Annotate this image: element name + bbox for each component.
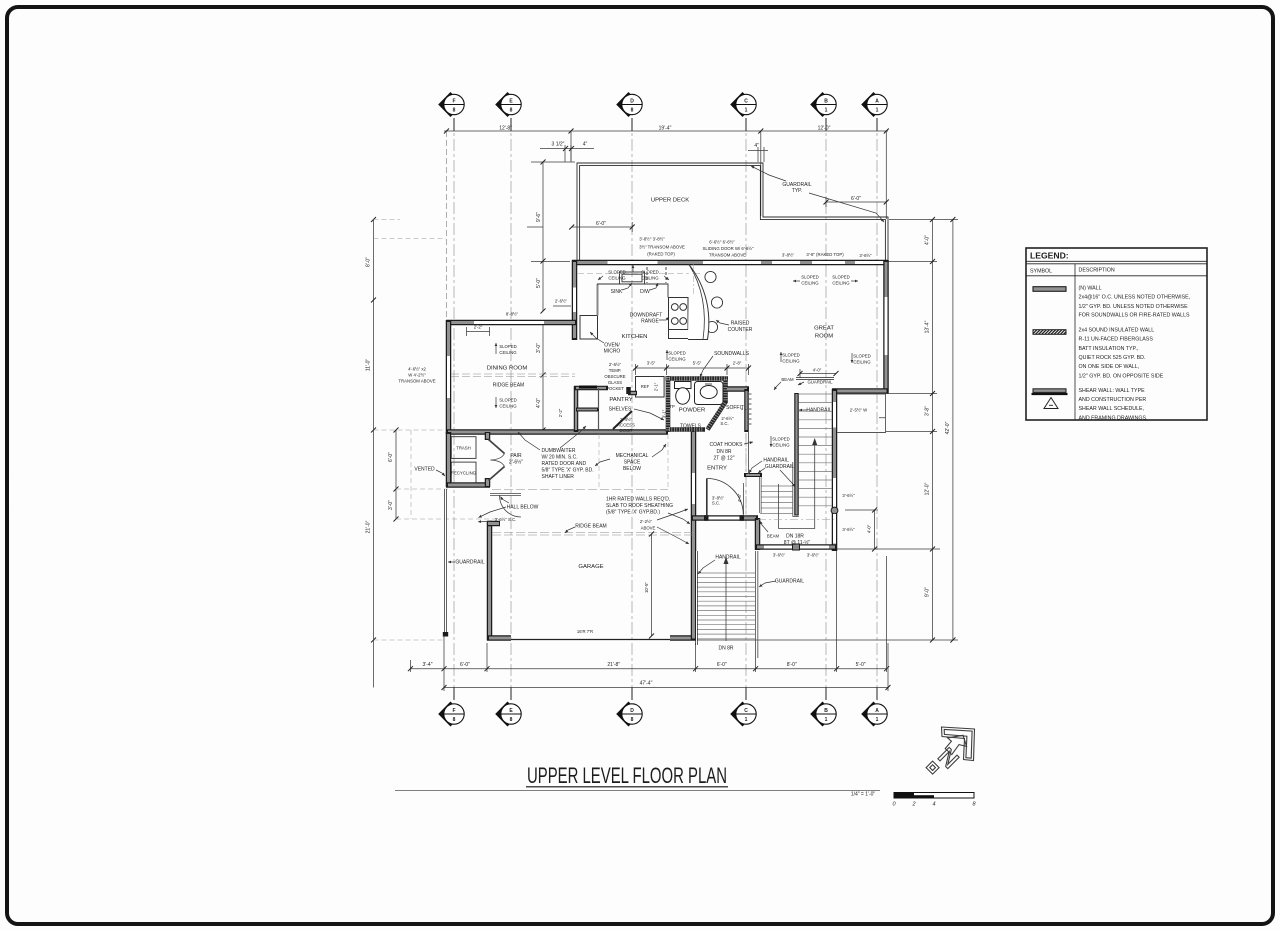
svg-text:3'-6½": 3'-6½" [842, 527, 855, 532]
svg-text:BEAM: BEAM [781, 377, 794, 382]
garage south wall + door opening [487, 638, 697, 640]
recycling bin box [451, 462, 476, 483]
svg-text:POCKET: POCKET [606, 386, 624, 391]
svg-text:MECHANICAL: MECHANICAL [616, 453, 649, 459]
kitchen counter [597, 267, 668, 298]
svg-text:6'-0": 6'-0" [388, 452, 394, 462]
svg-text:3'-0": 3'-0" [388, 500, 394, 510]
svg-text:5'-0": 5'-0" [536, 278, 542, 288]
grid bubble F/8 bottom [438, 702, 464, 727]
svg-text:DESCRIPTION: DESCRIPTION [1079, 268, 1115, 274]
svg-text:4'-6": 4'-6" [737, 493, 742, 502]
grid bubble D/8 bottom [616, 702, 642, 727]
svg-text:S.C.: S.C. [720, 421, 728, 426]
svg-text:HANDRAIL: HANDRAIL [806, 408, 832, 414]
svg-text:CEILING: CEILING [499, 350, 517, 355]
dim 2'-2 small [467, 327, 490, 336]
grid bubble C/1 top [730, 92, 756, 117]
svg-text:BELOW: BELOW [623, 466, 641, 472]
raised counter curve with stools [688, 264, 723, 340]
svg-text:DN 8R: DN 8R [716, 449, 731, 455]
svg-text:BEAM: BEAM [767, 534, 780, 539]
svg-text:4'-0": 4'-0" [925, 235, 931, 245]
svg-text:8'-8½": 8'-8½" [506, 312, 519, 317]
closet west wall + bottom (trash/recycling) [446, 432, 490, 487]
svg-text:1: 1 [745, 108, 748, 114]
svg-text:8'-0": 8'-0" [787, 662, 797, 668]
svg-text:12'-0": 12'-0" [925, 482, 931, 495]
svg-text:8: 8 [510, 108, 513, 114]
svg-text:SLOPED: SLOPED [782, 353, 799, 358]
grid line A [876, 118, 878, 700]
north arrow shaft [945, 735, 966, 754]
svg-text:2'-5½" W: 2'-5½" W [850, 408, 868, 413]
svg-text:SLOPED: SLOPED [499, 398, 516, 403]
svg-text:SINK: SINK [611, 289, 623, 295]
svg-text:8: 8 [453, 108, 456, 114]
svg-text:SLOPED: SLOPED [832, 275, 849, 280]
svg-text:RAISED: RAISED [731, 321, 750, 327]
north arrow letter N [938, 747, 959, 768]
exterior stair handrail [695, 551, 697, 645]
svg-text:4": 4" [583, 142, 588, 148]
scale bar [892, 793, 976, 808]
svg-text:MICRO: MICRO [604, 349, 621, 355]
svg-text:SHEAR WALL: WALL TYPE: SHEAR WALL: WALL TYPE [1079, 388, 1146, 394]
svg-text:C: C [744, 98, 748, 104]
svg-text:DOOR: DOOR [620, 428, 633, 433]
grid bubble D/8 top [616, 92, 642, 117]
svg-text:RANGE: RANGE [641, 319, 659, 325]
svg-text:GUARDRAIL: GUARDRAIL [807, 380, 833, 385]
entry 4'-6 dim [743, 483, 745, 514]
svg-text:SOFFIT: SOFFIT [726, 405, 744, 411]
grid bubble E/8 top [495, 92, 521, 117]
dim 9'-6"/5'-0" vertical (kitchen left) [527, 162, 575, 430]
svg-text:1/2" GYP. BD. ON OPPOSITE SIDE: 1/2" GYP. BD. ON OPPOSITE SIDE [1079, 373, 1164, 379]
wall right of powder [727, 386, 749, 392]
svg-text:8: 8 [631, 717, 634, 723]
grid bubble F/8 top [438, 92, 464, 117]
kitchen sloped ceiling dash line [578, 273, 700, 275]
svg-text:W/ 20 MIN. S.C.: W/ 20 MIN. S.C. [542, 455, 578, 461]
svg-text:ENTRY: ENTRY [707, 466, 727, 472]
svg-text:9'-0": 9'-0" [925, 587, 931, 597]
right dimension line [696, 220, 958, 641]
garage east / entry west wall [691, 430, 697, 641]
svg-text:RATED DOOR AND: RATED DOOR AND [542, 461, 587, 467]
svg-text:SLIDING DOOR W/ 6'-6½": SLIDING DOOR W/ 6'-6½" [702, 246, 754, 251]
svg-text:8T @ 11-½": 8T @ 11-½" [784, 539, 811, 546]
grid bubble A/1 top [861, 92, 887, 117]
legend symbol shear wall [1033, 389, 1066, 393]
svg-text:PANTRY: PANTRY [609, 397, 632, 403]
svg-text:1/2" GYP. BD. UNLESS NOTED OTH: 1/2" GYP. BD. UNLESS NOTED OTHERWISE [1079, 304, 1189, 310]
svg-text:SLOPED: SLOPED [772, 437, 789, 442]
svg-text:PAIR: PAIR [510, 453, 522, 459]
svg-text:TYP.: TYP. [792, 188, 802, 194]
grid bubble A/1 bottom [861, 702, 887, 727]
svg-text:CEILING: CEILING [608, 276, 626, 281]
powder sink [695, 382, 724, 405]
svg-text:CEILING: CEILING [668, 357, 686, 362]
svg-text:3'-8½": 3'-8½" [859, 253, 872, 258]
svg-text:8: 8 [631, 108, 634, 114]
downdraft range island [669, 298, 689, 339]
svg-text:GUARDRAIL: GUARDRAIL [775, 579, 804, 585]
svg-text:W 4'-2½": W 4'-2½" [408, 373, 426, 378]
svg-text:CEILING: CEILING [853, 360, 871, 365]
upper deck guardrail [577, 163, 888, 261]
entry/stair rail [744, 432, 762, 513]
svg-text:B: B [824, 98, 828, 104]
svg-text:SLOPED: SLOPED [641, 270, 658, 275]
svg-text:C: C [744, 708, 748, 714]
left dimension line [374, 220, 397, 688]
svg-text:8: 8 [510, 717, 513, 723]
svg-text:4'-0": 4'-0" [536, 398, 542, 408]
mechanical space dashed outline [599, 434, 746, 516]
svg-text:A: A [875, 708, 879, 714]
landing west wall [755, 518, 761, 550]
svg-text:DINING ROOM: DINING ROOM [487, 366, 528, 372]
svg-text:UPPER DECK: UPPER DECK [651, 198, 689, 204]
north arrow frame [926, 727, 974, 774]
svg-text:RIDGE BEAM: RIDGE BEAM [575, 524, 606, 530]
svg-text:2'-8": 2'-8" [733, 361, 742, 366]
great room east wall [883, 260, 889, 393]
svg-text:3'-6½": 3'-6½" [773, 553, 786, 558]
svg-text:4: 4 [932, 802, 935, 808]
grid line F [454, 118, 877, 700]
grid line E [510, 118, 512, 700]
stairs: central guardrail [793, 393, 799, 517]
svg-text:LEGEND:: LEGEND: [1030, 251, 1069, 261]
dining room north wall [446, 320, 577, 326]
svg-text:HANDRAIL: HANDRAIL [715, 555, 741, 561]
svg-text:CEILING: CEILING [782, 359, 800, 364]
grid bubble B/1 bottom [810, 702, 836, 727]
svg-text:TP: TP [669, 404, 675, 409]
svg-text:3'-5": 3'-5" [647, 361, 656, 366]
svg-text:CEILING: CEILING [801, 281, 819, 286]
REF niche [636, 377, 665, 398]
svg-text:REF: REF [641, 384, 650, 389]
dining room west wall [446, 320, 452, 434]
svg-text:SLOPED: SLOPED [668, 351, 685, 356]
svg-text:QUIET ROCK 525 GYP. BD.: QUIET ROCK 525 GYP. BD. [1079, 355, 1146, 361]
legend box [1026, 248, 1207, 420]
legend symbol (N) wall [1033, 287, 1066, 292]
exterior stair treads (down to grade) [698, 573, 756, 639]
svg-text:4'-0": 4'-0" [813, 368, 822, 373]
svg-text:8'-0": 8'-0" [366, 257, 372, 267]
svg-text:19'-4": 19'-4" [659, 126, 672, 132]
svg-text:TRANSOM ABOVE: TRANSOM ABOVE [709, 253, 746, 258]
powder toilet [675, 382, 692, 405]
svg-text:2T @ 12": 2T @ 12" [714, 456, 735, 462]
stair hall east wall [831, 389, 838, 551]
svg-text:HALL BELOW: HALL BELOW [507, 505, 539, 511]
svg-text:5'-5": 5'-5" [693, 361, 702, 366]
stair down arrow [779, 441, 815, 529]
grid line B [825, 118, 827, 700]
garage west wall [487, 521, 500, 641]
exterior walls: kitchen/great room north wall [572, 260, 888, 266]
landing south wall with posts [755, 544, 837, 550]
svg-text:D/W: D/W [640, 289, 650, 295]
svg-text:3'-1": 3'-1" [662, 409, 667, 418]
svg-text:R-11 UN-FACED FIBERGLASS: R-11 UN-FACED FIBERGLASS [1079, 337, 1154, 343]
svg-text:COAT HOOKS: COAT HOOKS [710, 442, 744, 448]
svg-text:1/4" = 1'-0": 1/4" = 1'-0" [851, 792, 876, 798]
bottom dimension lines [410, 551, 888, 691]
svg-text:AND CONSTRUCTION PER: AND CONSTRUCTION PER [1079, 397, 1147, 403]
svg-text:TRANSOM ABOVE: TRANSOM ABOVE [398, 379, 435, 384]
svg-text:2'-2": 2'-2" [558, 408, 563, 417]
svg-text:12'-8": 12'-8" [499, 126, 512, 132]
svg-text:6'-0": 6'-0" [596, 221, 606, 227]
svg-text:SHEAR WALL SCHEDULE,: SHEAR WALL SCHEDULE, [1079, 406, 1145, 412]
svg-text:CEILING: CEILING [772, 443, 790, 448]
svg-text:47'-4": 47'-4" [640, 681, 653, 687]
svg-text:SYMBOL: SYMBOL [1030, 269, 1052, 275]
svg-text:SLAB TO ROOF SHEATHING: SLAB TO ROOF SHEATHING [606, 503, 673, 509]
dims above powder 3'-5,5'-5,2'-8 [636, 364, 749, 375]
svg-text:GUARDRAIL: GUARDRAIL [765, 464, 794, 470]
dim 6'-0" top right [826, 197, 886, 207]
svg-text:8: 8 [453, 717, 456, 723]
svg-text:COUNTER: COUNTER [728, 327, 753, 333]
svg-text:3 1/2": 3 1/2" [552, 142, 565, 148]
svg-text:SHAFT LINER: SHAFT LINER [542, 474, 575, 480]
svg-text:3'-4": 3'-4" [423, 662, 433, 668]
svg-text:6'-0": 6'-0" [851, 196, 861, 202]
stair treads upper flight [799, 394, 832, 506]
stair treads lower flight [760, 486, 793, 514]
svg-text:12'-0": 12'-0" [818, 126, 831, 132]
svg-text:5'-0": 5'-0" [856, 662, 866, 668]
svg-text:4": 4" [754, 143, 759, 149]
landing dash-dot line [758, 519, 834, 521]
svg-text:2'-6½": 2'-6½" [555, 299, 568, 304]
svg-text:SLOPED: SLOPED [608, 270, 625, 275]
svg-text:F: F [452, 708, 455, 714]
grid line C [745, 118, 747, 700]
svg-text:GLASS: GLASS [608, 380, 622, 385]
svg-text:2x4@16" O.C. UNLESS NOTED OTHE: 2x4@16" O.C. UNLESS NOTED OTHERWISE, [1079, 295, 1191, 301]
svg-text:3'-8½": 3'-8½" [782, 253, 795, 258]
exterior stair dn arrow [725, 560, 727, 641]
svg-text:CEILING: CEILING [499, 404, 517, 409]
svg-text:6'-0": 6'-0" [717, 662, 727, 668]
svg-text:RECYCLING: RECYCLING [451, 471, 477, 476]
svg-text:TRASH: TRASH [456, 446, 471, 451]
svg-text:2: 2 [911, 802, 915, 808]
svg-text:GARAGE: GARAGE [578, 564, 603, 570]
svg-text:3'-6½" S.C.: 3'-6½" S.C. [495, 517, 517, 522]
svg-text:DUMBWAITER: DUMBWAITER [542, 448, 576, 454]
grid line D [631, 118, 633, 700]
svg-text:SLOPED: SLOPED [801, 275, 818, 280]
dashed ridge beam dining [451, 374, 575, 377]
grid bubble B/1 top [810, 92, 836, 117]
svg-text:SOUNDWALLS: SOUNDWALLS [714, 351, 749, 357]
hall below door arc [490, 493, 521, 517]
svg-text:DN 8R: DN 8R [718, 646, 733, 652]
great room south wall [832, 388, 889, 394]
pantry walls [574, 386, 632, 432]
svg-text:BATT INSULATION TYP.,: BATT INSULATION TYP., [1079, 346, 1139, 352]
svg-text:1: 1 [876, 717, 879, 723]
svg-text:(N) WALL: (N) WALL [1079, 286, 1102, 292]
svg-text:3½" TRANSOM ABOVE: 3½" TRANSOM ABOVE [639, 245, 685, 250]
trash bin box [451, 437, 476, 459]
svg-text:3'-8" (RAKED TOP): 3'-8" (RAKED TOP) [806, 252, 844, 257]
svg-text:ACCESS: ACCESS [617, 423, 635, 428]
svg-text:42'-0": 42'-0" [945, 421, 951, 434]
svg-text:2'-4½": 2'-4½" [620, 417, 633, 422]
left dashed extension lines [374, 220, 498, 641]
svg-text:OBSCURE: OBSCURE [604, 374, 625, 379]
svg-text:ON ONE SIDE OF WALL,: ON ONE SIDE OF WALL, [1079, 364, 1140, 370]
svg-text:RIDGE BEAM: RIDGE BEAM [493, 383, 524, 389]
closet pair doors [489, 440, 505, 481]
svg-text:HANDRAIL: HANDRAIL [763, 458, 789, 464]
svg-text:16'R 7'R: 16'R 7'R [577, 629, 593, 634]
svg-text:CEILING: CEILING [641, 276, 659, 281]
svg-text:13'-4": 13'-4" [925, 320, 931, 333]
svg-text:6'-6½" 6'-6½": 6'-6½" 6'-6½" [709, 240, 735, 245]
svg-text:KITCHEN: KITCHEN [622, 334, 648, 340]
svg-text:10'-5": 10'-5" [644, 582, 649, 593]
coat closet wall [747, 389, 752, 432]
powder room soundwalls [666, 376, 729, 432]
svg-text:GREAT: GREAT [814, 326, 834, 332]
svg-text:ABOVE: ABOVE [641, 526, 656, 531]
svg-text:3'-8½" 3'-8½": 3'-8½" 3'-8½" [639, 237, 665, 242]
svg-text:B: B [824, 708, 828, 714]
dim 6'-0" deck [572, 222, 633, 232]
svg-text:2x4 SOUND INSULATED WALL: 2x4 SOUND INSULATED WALL [1079, 327, 1155, 333]
svg-text:21'-0": 21'-0" [366, 520, 372, 533]
svg-text:S.C.: S.C. [712, 501, 720, 506]
svg-text:3'-0": 3'-0" [536, 343, 542, 353]
north arrow square [926, 761, 939, 774]
garage 10'-5 dim [651, 534, 653, 636]
svg-text:UPPER LEVEL FLOOR PLAN: UPPER LEVEL FLOOR PLAN [527, 763, 727, 788]
grid bubble C/1 bottom [730, 702, 756, 727]
svg-text:(5/8" TYPE 'X' GYP.BD.): (5/8" TYPE 'X' GYP.BD.) [606, 510, 660, 516]
svg-text:TEMP.: TEMP. [609, 368, 622, 373]
left guardrail (deck below) [443, 489, 448, 637]
entry south wall + front door opening [691, 515, 758, 521]
svg-text:4'-6½" x2: 4'-6½" x2 [408, 367, 426, 372]
svg-text:9'-6": 9'-6" [536, 212, 542, 222]
svg-text:A: A [875, 98, 879, 104]
svg-text:ROOM: ROOM [815, 334, 833, 340]
svg-text:2'-2½": 2'-2½" [640, 519, 653, 524]
svg-text:2'-1": 2'-1" [654, 382, 659, 391]
svg-text:SPACE: SPACE [624, 460, 641, 466]
legend symbol sound insulated wall [1033, 330, 1066, 335]
svg-text:1: 1 [825, 108, 828, 114]
svg-text:F: F [452, 98, 455, 104]
svg-text:4'-0": 4'-0" [867, 524, 872, 533]
svg-text:VENTED: VENTED [414, 467, 435, 473]
landing 4'-0 dim [845, 510, 878, 549]
svg-text:3'-8": 3'-8" [925, 406, 931, 416]
svg-text:TOWELS: TOWELS [680, 424, 702, 430]
grid bubble E/8 bottom [495, 702, 521, 727]
svg-text:POWDER: POWDER [679, 408, 706, 414]
svg-text:2'-6½": 2'-6½" [609, 362, 622, 367]
svg-text:GUARDRAIL: GUARDRAIL [455, 560, 484, 566]
4'-0 dim stairwell guardrail [800, 369, 836, 378]
svg-text:(RAKED TOP): (RAKED TOP) [647, 252, 675, 257]
svg-text:DN 18R: DN 18R [786, 534, 804, 540]
svg-text:3'-6½": 3'-6½" [807, 553, 820, 558]
stairwell top guardrail [796, 377, 834, 379]
svg-text:5/8" TYPE 'X' GYP. BD.: 5/8" TYPE 'X' GYP. BD. [542, 468, 594, 474]
svg-text:FOR SOUNDWALLS OR FIRE-RATED W: FOR SOUNDWALLS OR FIRE-RATED WALLS [1079, 312, 1191, 318]
svg-text:2'-6½": 2'-6½" [509, 459, 523, 466]
svg-text:2'-2": 2'-2" [474, 325, 483, 330]
svg-text:1HR RATED WALLS REQ'D,: 1HR RATED WALLS REQ'D, [606, 497, 670, 503]
svg-text:1: 1 [745, 717, 748, 723]
dashed ridge beam garage [492, 490, 692, 536]
svg-text:SLOPED: SLOPED [853, 354, 870, 359]
east bay outline [837, 394, 886, 433]
oven/micro closet [580, 284, 598, 339]
top dimension line [444, 131, 888, 322]
entry door arc [707, 479, 744, 516]
svg-text:D: D [630, 98, 634, 104]
svg-text:1: 1 [876, 108, 879, 114]
exterior stair guardrail right [757, 551, 759, 658]
bubble stems [454, 118, 877, 700]
svg-text:3'-6½": 3'-6½" [842, 493, 855, 498]
svg-text:6'-0": 6'-0" [460, 662, 470, 668]
svg-text:21'-8": 21'-8" [607, 662, 620, 668]
svg-text:CEILING: CEILING [832, 281, 850, 286]
svg-text:11'-0": 11'-0" [366, 359, 372, 372]
dim 2'-6 kitchen small [553, 305, 571, 307]
central wall (dining/hall) [446, 429, 668, 435]
svg-text:1: 1 [825, 717, 828, 723]
svg-text:AND FRAMING DRAWINGS.: AND FRAMING DRAWINGS. [1079, 415, 1148, 421]
svg-text:SLOPED: SLOPED [499, 344, 516, 349]
kitchen west wall [572, 260, 578, 340]
svg-text:SHELVES: SHELVES [609, 407, 632, 413]
svg-text:D: D [630, 708, 634, 714]
